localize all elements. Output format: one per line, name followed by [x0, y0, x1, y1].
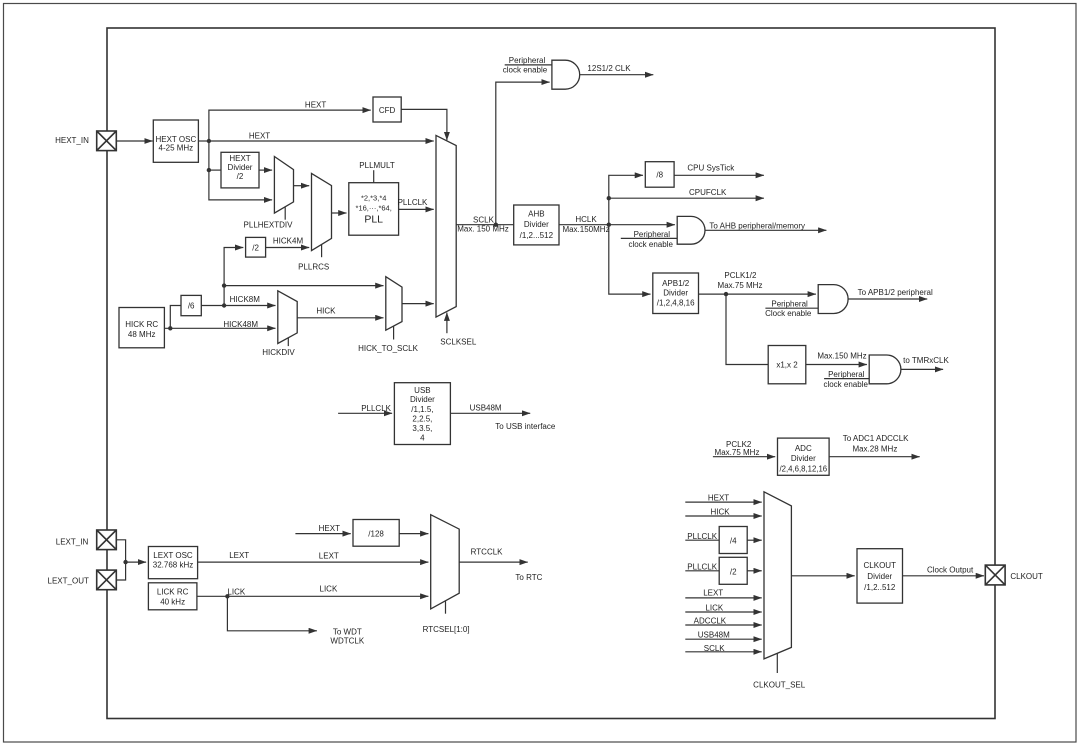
svg-text:SCLKSEL: SCLKSEL — [440, 337, 477, 346]
svg-text:PLLMULT: PLLMULT — [359, 161, 395, 170]
svg-text:/2: /2 — [730, 567, 737, 576]
svg-text:HEXT: HEXT — [708, 494, 729, 503]
svg-text:CLKOUT_SEL: CLKOUT_SEL — [753, 681, 806, 690]
svg-text:*2,*3,*4: *2,*3,*4 — [361, 194, 386, 203]
svg-text:Peripheral: Peripheral — [828, 370, 865, 379]
svg-text:To APB1/2 peripheral: To APB1/2 peripheral — [858, 288, 933, 297]
svg-text:40 kHz: 40 kHz — [160, 597, 185, 606]
svg-text:PLLHEXTDIV: PLLHEXTDIV — [244, 220, 294, 229]
svg-text:Divider: Divider — [524, 220, 549, 229]
svg-text:HEXT: HEXT — [229, 154, 250, 163]
svg-text:clock enable: clock enable — [503, 65, 548, 74]
svg-text:Max. 150 MHz: Max. 150 MHz — [457, 225, 509, 234]
svg-text:LICK: LICK — [227, 587, 245, 596]
svg-text:LEXT OSC: LEXT OSC — [153, 551, 193, 560]
svg-text:CFD: CFD — [379, 106, 396, 115]
svg-text:ADC: ADC — [795, 444, 812, 453]
svg-text:RTCSEL[1:0]: RTCSEL[1:0] — [423, 625, 470, 634]
svg-text:WDTCLK: WDTCLK — [330, 636, 364, 645]
svg-text:USB: USB — [414, 386, 430, 395]
svg-text:Max.150 MHz: Max.150 MHz — [817, 351, 866, 360]
svg-text:2,2.5,: 2,2.5, — [412, 414, 432, 423]
svg-text:PLLCLK: PLLCLK — [398, 198, 428, 207]
svg-text:SCLK: SCLK — [473, 215, 495, 224]
svg-text:Max.75 MHz: Max.75 MHz — [718, 281, 763, 290]
svg-text:Max.28 MHz: Max.28 MHz — [852, 445, 897, 454]
svg-text:Max.75 MHz: Max.75 MHz — [715, 448, 760, 457]
svg-text:Divider: Divider — [867, 572, 892, 581]
svg-text:/1,1.5,: /1,1.5, — [411, 405, 433, 414]
svg-text:To ADC1 ADCCLK: To ADC1 ADCCLK — [843, 434, 909, 443]
svg-text:48 MHz: 48 MHz — [128, 330, 156, 339]
svg-text:To AHB peripheral/memory: To AHB peripheral/memory — [709, 222, 805, 231]
svg-text:LEXT: LEXT — [703, 589, 723, 598]
svg-text:CPU SysTick: CPU SysTick — [687, 164, 735, 173]
svg-text:USB48M: USB48M — [470, 403, 502, 412]
svg-text:ADCCLK: ADCCLK — [694, 617, 727, 626]
svg-text:PLLCLK: PLLCLK — [361, 404, 391, 413]
svg-text:HICK8M: HICK8M — [230, 295, 261, 304]
svg-text:Divider: Divider — [228, 163, 253, 172]
svg-text:/2: /2 — [237, 172, 244, 181]
svg-text:/2: /2 — [252, 243, 259, 252]
svg-text:HICK: HICK — [316, 306, 336, 315]
svg-text:/4: /4 — [730, 537, 737, 546]
svg-text:Peripheral: Peripheral — [509, 56, 546, 65]
svg-text:To WDT: To WDT — [333, 627, 362, 636]
svg-text:HEXT: HEXT — [305, 100, 326, 109]
svg-text:Clock enable: Clock enable — [765, 309, 812, 318]
svg-text:CPUFCLK: CPUFCLK — [689, 188, 727, 197]
svg-text:SCLK: SCLK — [704, 644, 726, 653]
svg-text:HEXT_IN: HEXT_IN — [55, 136, 89, 145]
svg-text:12S1/2 CLK: 12S1/2 CLK — [587, 64, 631, 73]
svg-text:/6: /6 — [188, 302, 195, 311]
svg-text:PLL: PLL — [364, 213, 383, 225]
svg-text:Peripheral: Peripheral — [634, 230, 671, 239]
svg-text:PLLCLK: PLLCLK — [687, 563, 717, 572]
svg-text:/1,2,4,8,16: /1,2,4,8,16 — [657, 298, 695, 307]
svg-text:*16,···,*64,: *16,···,*64, — [356, 203, 392, 212]
svg-text:/2,4,6,8,12,16: /2,4,6,8,12,16 — [779, 465, 827, 474]
svg-text:PLLRCS: PLLRCS — [298, 262, 329, 271]
svg-text:Max.150MHz: Max.150MHz — [562, 225, 609, 234]
svg-text:HEXT OSC: HEXT OSC — [155, 135, 196, 144]
svg-text:Peripheral: Peripheral — [771, 299, 808, 308]
svg-text:3,3.5,: 3,3.5, — [412, 424, 432, 433]
svg-text:HICK48M: HICK48M — [223, 320, 258, 329]
svg-text:CLKOUT: CLKOUT — [864, 561, 897, 570]
svg-text:LICK: LICK — [320, 585, 338, 594]
svg-text:4: 4 — [420, 434, 425, 443]
svg-text:x1,x 2: x1,x 2 — [776, 361, 798, 370]
svg-text:LEXT: LEXT — [319, 552, 339, 561]
svg-text:HICK4M: HICK4M — [273, 236, 304, 245]
svg-text:AHB: AHB — [528, 210, 544, 219]
svg-text:Clock Output: Clock Output — [927, 566, 974, 575]
svg-text:HCLK: HCLK — [575, 215, 597, 224]
svg-text:/8: /8 — [656, 171, 663, 180]
svg-text:LEXT_IN: LEXT_IN — [56, 537, 89, 546]
svg-text:To RTC: To RTC — [515, 573, 542, 582]
svg-text:to TMRxCLK: to TMRxCLK — [903, 356, 949, 365]
svg-text:CLKOUT: CLKOUT — [1010, 572, 1043, 581]
svg-text:/1,2..512: /1,2..512 — [864, 583, 896, 592]
svg-text:Divider: Divider — [791, 454, 816, 463]
svg-text:LEXT_OUT: LEXT_OUT — [48, 577, 89, 586]
svg-text:Divider: Divider — [663, 289, 688, 298]
svg-text:HICKDIV: HICKDIV — [262, 348, 295, 357]
svg-text:Divider: Divider — [410, 395, 435, 404]
svg-text:APB1/2: APB1/2 — [662, 279, 690, 288]
svg-text:PLLCLK: PLLCLK — [687, 532, 717, 541]
svg-text:HICK: HICK — [710, 508, 730, 517]
svg-text:PCLK1/2: PCLK1/2 — [724, 271, 757, 280]
svg-text:HICK_TO_SCLK: HICK_TO_SCLK — [358, 344, 419, 353]
svg-text:LICK RC: LICK RC — [157, 588, 189, 597]
svg-text:32.768 kHz: 32.768 kHz — [153, 561, 193, 570]
svg-text:/128: /128 — [368, 529, 384, 538]
svg-text:clock enable: clock enable — [823, 380, 868, 389]
svg-text:RTCCLK: RTCCLK — [471, 547, 504, 556]
svg-text:LICK: LICK — [705, 604, 723, 613]
svg-text:LEXT: LEXT — [229, 551, 249, 560]
svg-text:4-25 MHz: 4-25 MHz — [159, 144, 194, 153]
svg-text:/1,2...512: /1,2...512 — [520, 231, 554, 240]
svg-text:HICK RC: HICK RC — [125, 320, 158, 329]
svg-text:USB48M: USB48M — [698, 631, 730, 640]
svg-text:To USB interface: To USB interface — [495, 422, 556, 431]
svg-text:HEXT: HEXT — [249, 132, 270, 141]
svg-text:clock enable: clock enable — [628, 240, 673, 249]
svg-text:HEXT: HEXT — [319, 524, 340, 533]
